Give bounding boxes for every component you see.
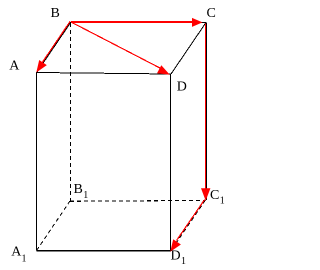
vector C1 to D1 shaft [177,200,205,241]
svg-text:1: 1 [181,256,186,267]
svg-text:C: C [210,188,219,203]
vector B to A shaft [40,21,71,66]
vector B to A head [36,60,47,73]
svg-text:C: C [207,6,216,21]
svg-text:D: D [171,249,181,264]
svg-text:A: A [9,59,20,74]
svg-text:B: B [51,6,60,21]
vector B to C head [192,18,203,27]
svg-text:1: 1 [83,190,88,201]
edge AD [37,73,171,75]
vector B to C shaft [71,21,194,23]
svg-text:1: 1 [220,196,225,207]
svg-text:D: D [177,80,187,95]
edge C1D1 dashed [171,200,206,251]
edge B1C1 dashed [70,199,206,202]
edge AB [37,22,71,72]
edge BB1 dashed [70,23,72,201]
vector C1 to D1 head [170,239,181,252]
svg-text:1: 1 [22,253,27,264]
edge DD1 [170,74,172,251]
edge CC1 [206,23,208,201]
edge CD [171,23,206,75]
vector B to D shaft [71,22,161,68]
edge A1D1 [37,250,172,252]
svg-text:B: B [74,182,83,197]
vector C to C1 shaft [204,24,206,191]
edge AA1 [36,72,38,251]
vector B to D head [157,65,170,75]
edge BC [71,21,206,23]
edge A1B1 dashed [37,201,70,251]
vector C to C1 head [201,188,210,201]
